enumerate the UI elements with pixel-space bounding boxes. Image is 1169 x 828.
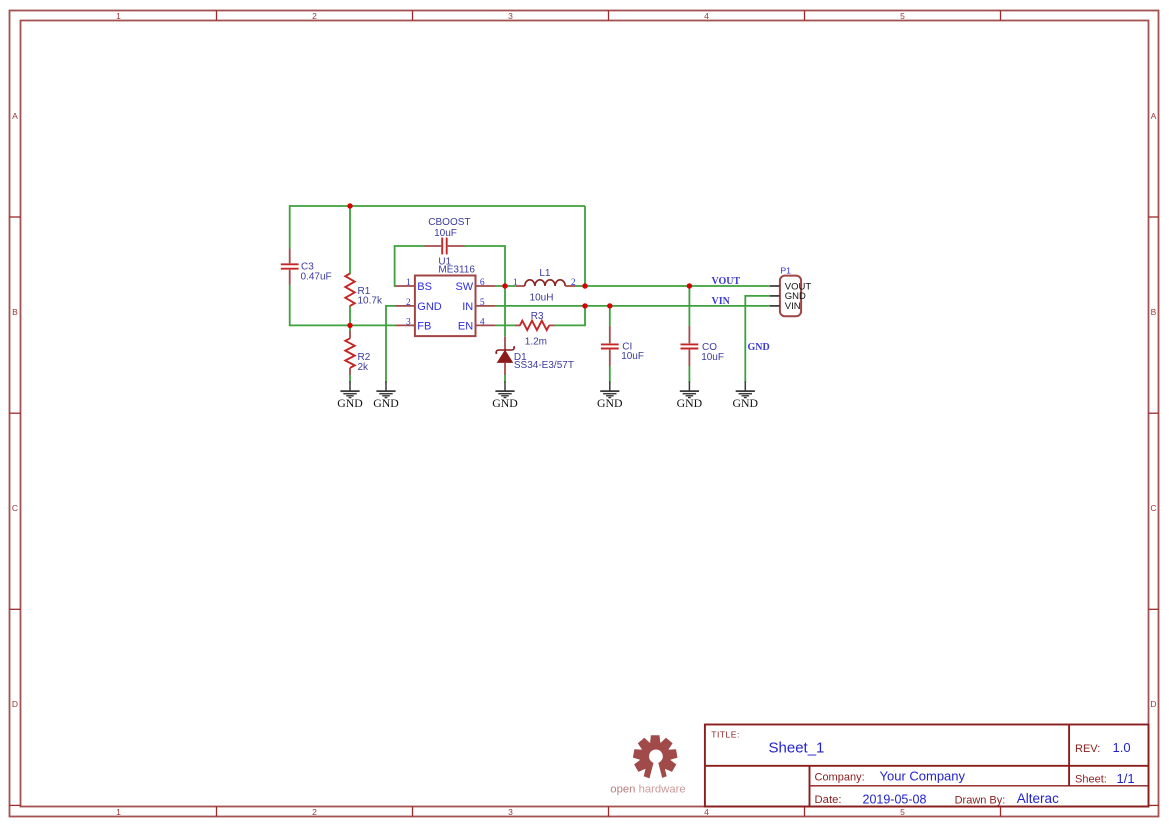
- pin 6 SW: [476, 285, 496, 287]
- svg-text:3: 3: [508, 807, 513, 817]
- svg-text:SW: SW: [455, 281, 473, 293]
- svg-text:10.7k: 10.7k: [358, 296, 383, 307]
- svg-text:Sheet:: Sheet:: [1075, 773, 1107, 785]
- svg-text:C: C: [1150, 503, 1156, 513]
- svg-text:2: 2: [312, 11, 317, 21]
- svg-text:0.47uF: 0.47uF: [301, 271, 332, 282]
- svg-text:TITLE:: TITLE:: [711, 729, 740, 739]
- svg-text:EN: EN: [458, 320, 473, 332]
- svg-text:5: 5: [900, 11, 905, 21]
- wire R2 bottom lead: [349, 375, 351, 383]
- wire SW pin to L1: [495, 285, 516, 287]
- capacitor CO: [681, 326, 724, 366]
- wire CI top lead: [609, 306, 611, 326]
- svg-text:10uF: 10uF: [621, 351, 644, 362]
- wire top VOUT rail: [290, 205, 585, 207]
- svg-text:2: 2: [312, 807, 317, 817]
- wire CO top lead: [688, 286, 690, 326]
- pin 5 IN: [476, 305, 496, 307]
- ground GND (P1): [733, 381, 759, 410]
- wire L1 to VOUT junction: [575, 285, 585, 287]
- svg-text:10uF: 10uF: [434, 228, 457, 239]
- svg-text:R3: R3: [531, 311, 544, 322]
- svg-text:6: 6: [480, 278, 485, 288]
- svg-text:4: 4: [480, 317, 485, 327]
- pin 3 FB: [396, 324, 415, 326]
- svg-text:Company:: Company:: [815, 772, 865, 784]
- wire R2 top lead: [349, 325, 351, 331]
- net label VIN: [712, 296, 731, 307]
- svg-text:10uH: 10uH: [530, 292, 554, 303]
- svg-text:GND: GND: [748, 342, 770, 353]
- SCHEMATIC: [281, 203, 812, 410]
- svg-text:SS34-E3/57T: SS34-E3/57T: [514, 360, 574, 371]
- svg-text:3: 3: [406, 317, 411, 327]
- svg-text:FB: FB: [417, 320, 431, 332]
- wire VOUT row to P1: [585, 285, 770, 287]
- svg-text:1: 1: [513, 278, 518, 288]
- svg-text:Drawn By:: Drawn By:: [955, 794, 1006, 806]
- svg-text:B: B: [1151, 307, 1157, 317]
- svg-text:GND: GND: [337, 396, 363, 410]
- svg-text:A: A: [1151, 111, 1157, 121]
- svg-text:CBOOST: CBOOST: [428, 217, 470, 228]
- net label GND: [748, 342, 770, 353]
- ground GND (R2): [337, 381, 363, 410]
- svg-text:A: A: [12, 111, 18, 121]
- svg-text:GND: GND: [417, 301, 442, 313]
- capacitor C3: [281, 249, 332, 285]
- resistor R2: [345, 331, 370, 375]
- capacitor CI: [601, 326, 644, 366]
- svg-text:Sheet_1: Sheet_1: [769, 740, 825, 757]
- wire left rail upper (VOUT to C3 top): [289, 205, 291, 248]
- TITLEBLOCK: [705, 725, 1149, 807]
- wire CO bottom lead: [688, 366, 690, 383]
- svg-text:4: 4: [704, 11, 709, 21]
- svg-text:D: D: [12, 699, 18, 709]
- svg-text:open hardware: open hardware: [610, 783, 685, 795]
- svg-text:IN: IN: [462, 301, 473, 313]
- svg-text:Your Company: Your Company: [880, 769, 966, 784]
- wire CI bottom lead: [609, 366, 611, 383]
- wire R1 bottom lead: [349, 306, 351, 326]
- svg-text:B: B: [12, 307, 18, 317]
- wire EN pin to R3: [495, 324, 515, 326]
- svg-text:5: 5: [900, 807, 905, 817]
- pin 2 GND: [396, 305, 415, 307]
- junction node VIN / CI: [607, 303, 612, 308]
- svg-text:10uF: 10uF: [701, 352, 724, 363]
- svg-text:4: 4: [704, 807, 709, 817]
- wire U1 GND pin to ground: [386, 306, 396, 383]
- svg-text:GND: GND: [597, 396, 623, 410]
- svg-text:1/1: 1/1: [1117, 771, 1135, 786]
- junction node VIN / R3: [582, 303, 587, 308]
- svg-text:VIN: VIN: [712, 296, 731, 307]
- wire D1 anode to ground: [504, 375, 506, 383]
- ground GND (CI): [597, 381, 623, 410]
- wire R1 top lead: [349, 206, 351, 274]
- ground GND (U1 pin2): [373, 381, 399, 410]
- svg-text:2k: 2k: [358, 362, 370, 373]
- svg-text:P1: P1: [780, 265, 791, 275]
- diode D1: [495, 337, 574, 375]
- svg-text:REV:: REV:: [1075, 743, 1100, 755]
- svg-text:GND: GND: [373, 396, 399, 410]
- svg-text:1: 1: [116, 807, 121, 817]
- svg-text:GND: GND: [492, 396, 518, 410]
- svg-text:VOUT: VOUT: [712, 276, 741, 287]
- wire P1 GND pin to ground: [745, 296, 770, 383]
- pin 4 EN: [476, 324, 496, 326]
- wire FB row horizontal: [290, 324, 396, 326]
- svg-text:C: C: [12, 503, 18, 513]
- resistor R3: [515, 311, 555, 347]
- wire SW junction down to D1: [504, 286, 506, 337]
- IC U1 ME3116: [396, 256, 496, 336]
- wire R3 to VIN junction: [554, 306, 585, 326]
- LOGO: [610, 735, 685, 795]
- svg-text:GND: GND: [677, 396, 703, 410]
- wire VOUT vertical (rail to L1 out): [584, 206, 586, 286]
- svg-text:3: 3: [508, 11, 513, 21]
- connector P1: [770, 265, 811, 316]
- junction node SW / CBOOST / D1: [502, 283, 507, 288]
- svg-text:1.2m: 1.2m: [525, 337, 547, 348]
- wire CBOOST right to SW junction: [464, 246, 505, 286]
- pin 1 BS: [396, 285, 415, 287]
- svg-text:1: 1: [406, 278, 411, 288]
- inductor L1: [513, 268, 576, 303]
- resistor R1: [345, 274, 383, 307]
- wire VIN row IN pin to P1: [495, 305, 770, 307]
- svg-text:2: 2: [571, 278, 576, 288]
- svg-text:1: 1: [116, 11, 121, 21]
- junction node L1 out / VOUT rail: [582, 283, 587, 288]
- svg-text:BS: BS: [417, 281, 432, 293]
- wire left rail lower (C3 bottom to FB row): [289, 285, 291, 327]
- svg-text:L1: L1: [539, 268, 551, 279]
- junction node VOUT rail / R1: [347, 203, 352, 208]
- capacitor CBOOST: [425, 217, 471, 254]
- net label VOUT: [712, 276, 741, 287]
- junction node VOUT / CO: [687, 283, 692, 288]
- svg-text:2: 2: [406, 298, 411, 308]
- svg-text:5: 5: [480, 298, 485, 308]
- svg-text:ME3116: ME3116: [438, 265, 475, 276]
- ground GND (CO): [677, 381, 703, 410]
- svg-text:Date:: Date:: [815, 794, 842, 806]
- svg-text:Alterac: Alterac: [1017, 791, 1059, 806]
- ground GND (D1): [492, 381, 518, 410]
- junction node FB row / R1 R2: [347, 323, 352, 328]
- svg-text:GND: GND: [733, 396, 759, 410]
- svg-text:VIN: VIN: [785, 301, 801, 312]
- svg-text:1.0: 1.0: [1113, 740, 1131, 755]
- wire BS bootstrap left: [395, 246, 425, 286]
- svg-text:D: D: [1150, 699, 1156, 709]
- svg-text:2019-05-08: 2019-05-08: [863, 792, 927, 806]
